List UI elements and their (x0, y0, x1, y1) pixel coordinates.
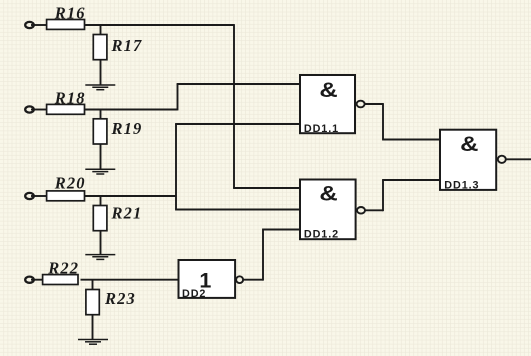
wire (175, 124, 177, 210)
wire (31, 195, 46, 197)
wire (100, 110, 102, 119)
wire (382, 139, 439, 141)
svg-text:&: & (319, 181, 337, 205)
svg-text:R19: R19 (111, 119, 143, 138)
svg-text:&: & (319, 78, 337, 102)
resistor R23 (86, 289, 136, 315)
svg-text:R21: R21 (111, 203, 143, 222)
NAND gate DD1.2 (300, 180, 365, 241)
wire (100, 231, 102, 255)
input terminal 4 (25, 277, 34, 283)
svg-text:R16: R16 (54, 4, 86, 23)
resistor R19 (93, 119, 142, 144)
wire (382, 180, 384, 211)
wire (382, 103, 384, 139)
wire (100, 25, 102, 35)
wire (233, 24, 235, 188)
resistor R16 (47, 4, 86, 30)
wire (175, 123, 299, 125)
wire (85, 109, 178, 111)
resistor R21 (93, 203, 142, 230)
wire (31, 279, 42, 281)
wire (100, 60, 102, 85)
ground (78, 340, 108, 345)
buffer gate DD2 (179, 260, 244, 300)
wire (31, 109, 46, 111)
input terminal 1 (25, 22, 34, 28)
wire (177, 83, 300, 85)
resistor R18 (47, 88, 86, 114)
resistor R22 (43, 258, 80, 284)
resistor R17 (93, 35, 142, 60)
resistor R20 (47, 173, 86, 200)
svg-text:&: & (460, 132, 478, 156)
NAND gate DD1.1 (300, 75, 365, 135)
wire (382, 179, 439, 181)
svg-text:DD1.3: DD1.3 (444, 180, 479, 192)
wire (81, 279, 179, 281)
ground (85, 255, 115, 260)
wire (100, 196, 102, 206)
svg-text:DD1.2: DD1.2 (304, 228, 339, 240)
wire (175, 209, 299, 211)
wire (365, 209, 383, 211)
svg-text:R22: R22 (47, 258, 79, 277)
wire (31, 24, 46, 26)
input terminal 3 (25, 193, 34, 199)
svg-text:DD1.1: DD1.1 (304, 123, 339, 135)
wire (177, 84, 179, 110)
wire (233, 187, 299, 189)
ground (85, 169, 115, 174)
wire (262, 230, 264, 281)
wire (85, 195, 176, 197)
input terminal 2 (25, 106, 34, 112)
ground (85, 85, 115, 90)
svg-text:R20: R20 (54, 173, 86, 192)
wire (92, 315, 94, 340)
wire (92, 280, 94, 290)
NAND gate DD1.3 (440, 130, 506, 192)
wire (243, 279, 263, 281)
svg-text:R17: R17 (111, 36, 143, 55)
wire (100, 144, 102, 169)
wire (262, 229, 299, 231)
wire (506, 158, 531, 160)
wire (85, 24, 234, 26)
wire (365, 103, 383, 105)
svg-text:R23: R23 (104, 289, 136, 308)
svg-text:DD2: DD2 (182, 288, 206, 300)
svg-text:R18: R18 (54, 88, 86, 107)
